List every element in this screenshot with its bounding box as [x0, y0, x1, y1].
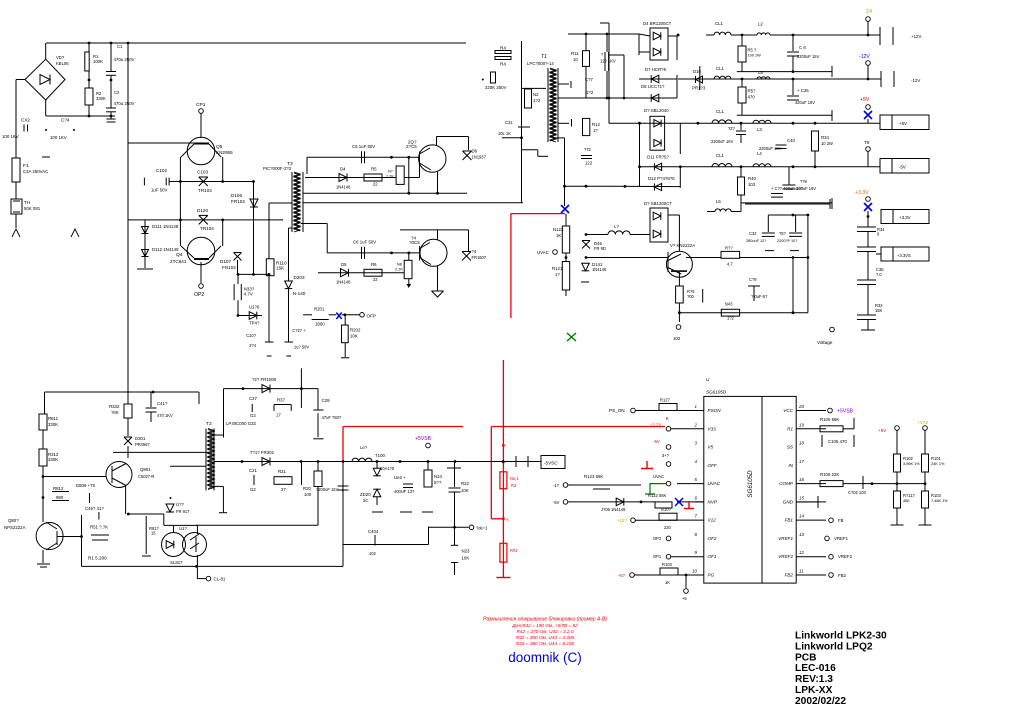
svg-text:10: 10	[573, 57, 578, 62]
svg-text:C404: C404	[368, 529, 379, 534]
svg-text:C 6: C 6	[799, 45, 806, 50]
svg-text:Voltage: Voltage	[817, 340, 833, 345]
svg-text:+5VSB: +5VSB	[837, 409, 854, 415]
svg-text:2TC641: 2TC641	[170, 259, 187, 264]
svg-text:N2: N2	[533, 92, 539, 97]
svg-text:?200uF 16V: ?200uF 16V	[316, 487, 339, 492]
svg-text:R121: R121	[552, 266, 563, 271]
svg-text:122: 122	[585, 161, 593, 166]
svg-text:OFP: OFP	[367, 314, 376, 319]
svg-text:COMP: COMP	[779, 481, 794, 486]
svg-text:FN104: FN104	[222, 265, 236, 270]
svg-text:C2: C2	[114, 90, 120, 95]
svg-text:+5V: +5V	[878, 428, 887, 433]
svg-text:C5027-R: C5027-R	[138, 474, 154, 479]
svg-text:470u 250V: 470u 250V	[114, 101, 135, 106]
svg-text:VREF1: VREF1	[778, 536, 793, 541]
svg-text:0: 0	[877, 232, 880, 237]
svg-text:V? KN2222A: V? KN2222A	[670, 243, 695, 248]
svg-text:R6: R6	[371, 262, 377, 267]
svg-text:2200uF 15V: 2200uF 15V	[797, 54, 820, 59]
svg-text:Ue2 +: Ue2 +	[394, 475, 406, 480]
svg-text:1N1937: 1N1937	[472, 155, 487, 160]
svg-text:J?06 1N4148: J?06 1N4148	[601, 507, 626, 512]
svg-text:15K: 15K	[276, 266, 285, 271]
svg-text:+5?: +5?	[618, 573, 626, 578]
svg-text:TH: TH	[24, 200, 30, 205]
svg-text:??9: ??9	[800, 179, 808, 184]
svg-text:L3: L3	[757, 127, 762, 132]
svg-text:R?117: R?117	[903, 493, 915, 498]
svg-text:R34: R34	[821, 135, 830, 140]
svg-text:22: 22	[373, 277, 378, 282]
svg-text:PSON: PSON	[708, 408, 722, 413]
svg-text:R106 56K: R106 56K	[820, 417, 839, 422]
svg-text:R51 ?.?K: R51 ?.?K	[90, 525, 108, 530]
svg-text:1?: 1?	[555, 272, 560, 277]
svg-text:Le?: Le?	[360, 445, 368, 450]
svg-text:C5 1uF 50V: C5 1uF 50V	[352, 144, 375, 149]
svg-text:13: 13	[799, 532, 804, 537]
svg-text:2?4: 2?4	[249, 343, 257, 348]
svg-text:14: 14	[799, 514, 804, 519]
svg-text:3+?: 3+?	[662, 453, 670, 458]
svg-text:+12V: +12V	[911, 34, 921, 39]
svg-text:OP2: OP2	[653, 536, 662, 541]
svg-text:-12V: -12V	[859, 54, 870, 60]
svg-text:CL1: CL1	[716, 153, 725, 158]
svg-text:FR 917: FR 917	[176, 509, 190, 514]
svg-text:N8: N8	[397, 263, 402, 267]
svg-text:102: 102	[673, 336, 681, 341]
svg-text:T9: T9	[864, 140, 870, 145]
svg-text:D107: D107	[220, 259, 231, 264]
svg-text:1?2: 1?2	[533, 98, 541, 103]
svg-text:50K 081: 50K 081	[24, 206, 41, 211]
svg-text:7?1? FR302: 7?1? FR302	[250, 450, 274, 455]
svg-text:D112 1N4148: D112 1N4148	[152, 247, 179, 252]
svg-text:2C: 2C	[363, 498, 369, 503]
svg-text:D? SB1200CT: D? SB1200CT	[644, 201, 672, 206]
svg-text:4: 4	[695, 459, 698, 464]
svg-text:T100: T100	[375, 453, 385, 458]
svg-text:100 1KV: 100 1KV	[50, 135, 67, 140]
svg-text:330K: 330K	[96, 96, 106, 101]
svg-text:2: 2	[694, 422, 698, 427]
svg-text:-5VSC: -5VSC	[544, 461, 558, 466]
svg-text:CL1: CL1	[715, 21, 724, 26]
svg-text:R11: R11	[571, 51, 579, 56]
svg-text:GND: GND	[783, 499, 794, 504]
svg-text:doomnik (C): doomnik (C)	[508, 650, 582, 665]
svg-text:PR4567: PR4567	[135, 442, 151, 447]
svg-text:D6: D6	[472, 149, 478, 154]
svg-text:10K: 10K	[462, 556, 470, 561]
svg-text:V5: V5	[708, 445, 714, 450]
svg-text:PR1?3: PR1?3	[692, 86, 706, 91]
svg-text:CL-81: CL-81	[214, 577, 226, 582]
svg-text:330K: 330K	[48, 422, 58, 427]
svg-text:N?: N?	[388, 170, 393, 174]
svg-text:-5V: -5V	[899, 165, 906, 170]
svg-text:3.96K 1%: 3.96K 1%	[903, 462, 920, 466]
svg-text:NVP: NVP	[708, 499, 718, 504]
svg-text:D301: D301	[135, 436, 146, 441]
svg-text:280ouF 12?: 280ouF 12?	[746, 239, 766, 243]
svg-text:T2: T2	[206, 421, 212, 427]
svg-text:R811: R811	[48, 416, 59, 421]
svg-text:A: A	[506, 517, 509, 522]
svg-text:N123: N123	[553, 227, 564, 232]
svg-text:2.2K: 2.2K	[395, 268, 403, 272]
svg-text:D11 FR?5?: D11 FR?5?	[647, 155, 669, 160]
svg-text:22: 22	[373, 182, 378, 187]
svg-text:VCC: VCC	[783, 408, 793, 413]
svg-text:LPC?000?-14: LPC?000?-14	[527, 61, 554, 66]
svg-text:1N4148: 1N4148	[592, 267, 607, 272]
svg-text:VREF2: VREF2	[838, 554, 853, 559]
svg-text:5: 5	[695, 477, 698, 482]
svg-text:UVAC: UVAC	[537, 250, 549, 255]
svg-text:R21: R21	[278, 469, 287, 474]
svg-text:R5?: R5?	[748, 89, 757, 94]
svg-text:10: 10	[692, 569, 697, 574]
svg-text:47uF ?50?: 47uF ?50?	[322, 415, 342, 420]
svg-text:2?C5: 2?C5	[406, 144, 417, 149]
svg-text:Q4: Q4	[176, 252, 183, 258]
svg-text:C105 470: C105 470	[828, 439, 847, 444]
svg-text:?00: ?00	[687, 294, 695, 299]
svg-text:Z4: Z4	[866, 9, 872, 15]
svg-text:420uF 16V: 420uF 16V	[795, 100, 815, 105]
svg-text:10L 1K: 10L 1K	[498, 131, 511, 136]
svg-text:C102: C102	[156, 168, 167, 173]
svg-text:5??: 5??	[434, 480, 442, 485]
svg-text:R12: R12	[592, 122, 601, 127]
svg-text:?0K: ?0K	[111, 410, 119, 415]
svg-text:TR104: TR104	[198, 188, 212, 193]
svg-text:FB: FB	[838, 518, 844, 523]
svg-text:R2: R2	[511, 483, 517, 488]
svg-text:+3.3VS: +3.3VS	[897, 253, 911, 258]
svg-text:C29: C29	[322, 398, 331, 403]
svg-text:R332: R332	[109, 404, 120, 409]
svg-text:+3.3V: +3.3V	[899, 215, 911, 220]
svg-text:+V?2: +V?2	[917, 420, 928, 425]
svg-text:D203: D203	[294, 275, 305, 280]
svg-text:LPK-XX: LPK-XX	[795, 685, 833, 696]
svg-text:UVAC: UVAC	[708, 481, 721, 486]
svg-text:D120: D120	[197, 208, 208, 213]
svg-text:L2: L2	[758, 22, 763, 27]
svg-text:-12V: -12V	[911, 78, 920, 83]
svg-text:D111 1N4148: D111 1N4148	[152, 224, 179, 229]
svg-text:SL817: SL817	[170, 560, 183, 565]
svg-text:?2?: ?2?	[728, 126, 736, 131]
svg-text:980: 980	[56, 495, 64, 500]
svg-text:R1 5.200: R1 5.200	[88, 556, 107, 561]
svg-text:OP2: OP2	[194, 292, 204, 298]
svg-text:19: 19	[799, 422, 804, 427]
svg-text:R42 = 300 Ом, U43 = 3.300: R42 = 300 Ом, U43 = 3.300	[516, 635, 575, 640]
svg-text:+5V: +5V	[899, 121, 907, 126]
svg-text:L6: L6	[716, 199, 721, 204]
svg-text:+5V: +5V	[860, 97, 870, 103]
svg-text:+12?: +12?	[617, 518, 627, 523]
svg-text:15: 15	[799, 495, 804, 500]
svg-text:LEC-016: LEC-016	[795, 663, 836, 674]
svg-text:PG: PG	[708, 573, 715, 578]
svg-text:4.7V: 4.7V	[244, 292, 253, 297]
svg-text:K: K	[666, 416, 669, 421]
svg-text:R812: R812	[53, 486, 64, 491]
svg-text:D8 UCC71?: D8 UCC71?	[641, 84, 665, 89]
svg-text:1N4148: 1N4148	[336, 185, 351, 190]
svg-text:V12: V12	[708, 518, 717, 523]
svg-text:470: 470	[748, 95, 756, 100]
svg-text:+3.3V: +3.3V	[650, 422, 662, 427]
svg-text:N43: N43	[725, 302, 733, 307]
svg-text:2002/02/22: 2002/02/22	[795, 696, 846, 707]
svg-text:C27: C27	[249, 396, 258, 401]
svg-text:D106: D106	[231, 193, 242, 198]
svg-text:1K: 1K	[556, 233, 561, 238]
svg-text:T1: T1	[541, 54, 547, 60]
svg-text:+ C26: + C26	[797, 88, 809, 93]
svg-text:L?: L?	[614, 224, 619, 229]
svg-text:L5: L5	[758, 70, 763, 75]
svg-text:12: 12	[799, 550, 804, 555]
svg-text:45K: 45K	[903, 499, 910, 503]
svg-text:SG6105D: SG6105D	[747, 470, 754, 498]
svg-text:R103: R103	[662, 562, 673, 567]
svg-text:-5V: -5V	[653, 439, 660, 444]
svg-text:?de=1: ?de=1	[476, 526, 488, 531]
svg-text:Linkworld LPK2-30: Linkworld LPK2-30	[795, 631, 887, 642]
svg-text:N23: N23	[462, 549, 471, 554]
svg-text:D4: D4	[340, 167, 346, 172]
svg-text:C?4: C?4	[61, 118, 70, 123]
svg-text:FR1607: FR1607	[472, 255, 487, 260]
svg-text:470 1KV: 470 1KV	[157, 413, 173, 418]
svg-text:R5 ?: R5 ?	[748, 48, 757, 53]
svg-text:U: U	[706, 377, 710, 382]
svg-text:470u 250V: 470u 250V	[114, 57, 135, 62]
svg-text:102: 102	[748, 182, 756, 187]
svg-text:C?02 103: C?02 103	[848, 490, 866, 495]
svg-text:9: 9	[695, 550, 698, 555]
svg-text:PIC?000F-2?2: PIC?000F-2?2	[263, 166, 292, 171]
svg-text:?0C5: ?0C5	[409, 240, 420, 245]
svg-text:TP4?: TP4?	[249, 321, 260, 326]
svg-text:V33: V33	[708, 426, 717, 431]
svg-text:C1: C1	[117, 44, 123, 49]
svg-text:D12 P?4?6?5: D12 P?4?6?5	[648, 176, 675, 181]
svg-text:OP1: OP1	[653, 554, 662, 559]
svg-text:17: 17	[799, 459, 804, 464]
svg-text:OF1: OF1	[708, 554, 717, 559]
svg-text:+3.3V: +3.3V	[855, 190, 869, 196]
svg-text:U??: U??	[176, 502, 185, 507]
svg-text:R122 06K: R122 06K	[648, 493, 666, 498]
svg-text:1N4148: 1N4148	[336, 280, 351, 285]
svg-text:R43 = 380 Ом, U44 = 9.236: R43 = 380 Ом, U44 = 9.236	[516, 641, 575, 646]
svg-text:100K: 100K	[93, 59, 103, 64]
svg-text:Ne,1: Ne,1	[510, 476, 519, 481]
svg-text:D7 HCR?6: D7 HCR?6	[645, 67, 667, 72]
svg-text:R201: R201	[314, 307, 325, 312]
svg-text:8: 8	[695, 532, 698, 537]
svg-text:?72: ?72	[584, 147, 592, 152]
svg-text:U1?: U1?	[179, 526, 188, 531]
svg-text:D806 +75: D806 +75	[76, 483, 96, 488]
svg-text:C45? 41?: C45? 41?	[85, 506, 104, 511]
svg-text:FB2: FB2	[785, 573, 794, 578]
svg-text:C41?: C41?	[157, 401, 168, 406]
svg-text:R1: R1	[787, 426, 793, 431]
svg-text:C103: C103	[197, 170, 208, 175]
svg-text:ZD20: ZD20	[360, 492, 371, 497]
svg-text:R#2: R#2	[510, 548, 518, 553]
svg-text:20: 20	[798, 404, 804, 409]
svg-text:11: 11	[799, 569, 804, 574]
svg-text:R40: R40	[748, 176, 757, 181]
svg-text:KBL06: KBL06	[56, 61, 69, 66]
svg-text:1u? 50V: 1u? 50V	[294, 345, 310, 350]
svg-text:400UF 13?: 400UF 13?	[394, 489, 415, 494]
svg-text:4,7: 4,7	[727, 262, 733, 267]
svg-text:R4: R4	[500, 62, 506, 67]
svg-text:R5: R5	[371, 167, 377, 172]
svg-text:R4: R4	[500, 46, 506, 51]
svg-text:12? 1KV: 12? 1KV	[600, 59, 616, 64]
svg-text:R102: R102	[903, 456, 914, 461]
svg-text:CX2: CX2	[21, 118, 30, 123]
svg-text:D4 BR1200CT: D4 BR1200CT	[643, 21, 672, 26]
svg-text:PS_ON: PS_ON	[609, 408, 625, 413]
svg-text:OFF: OFF	[708, 463, 718, 468]
svg-text:FB1: FB1	[785, 518, 794, 523]
svg-text:16: 16	[799, 477, 804, 482]
svg-text:CL1: CL1	[716, 66, 725, 71]
svg-text:C21: C21	[249, 468, 258, 473]
svg-text:C?27 +: C?27 +	[292, 328, 306, 333]
svg-text:1?: 1?	[593, 128, 598, 133]
svg-text:15: 15	[151, 531, 156, 536]
svg-text:L4: L4	[757, 151, 762, 156]
svg-text:R37: R37	[277, 398, 286, 403]
svg-text:REV:1.3: REV:1.3	[795, 674, 833, 685]
svg-text:C32: C32	[749, 231, 757, 236]
svg-text:?4: ?4	[472, 249, 477, 254]
svg-text:R123 56K: R123 56K	[584, 474, 603, 479]
svg-text:1?2: 1?2	[727, 316, 735, 321]
svg-text:N24: N24	[434, 474, 443, 479]
svg-text:10K: 10K	[350, 334, 358, 339]
svg-text:10K: 10K	[461, 488, 469, 493]
svg-text:UVAC: UVAC	[653, 474, 664, 479]
svg-text:R22: R22	[461, 481, 470, 486]
svg-text:U1?6: U1?6	[249, 305, 260, 310]
svg-text:R202: R202	[350, 328, 361, 333]
svg-text:D5: D5	[341, 262, 347, 267]
svg-text:+ C?? 400uF 16?: + C?? 400uF 16?	[771, 186, 803, 191]
svg-text:330K: 330K	[48, 457, 58, 462]
svg-text:LP40C000 G32: LP40C000 G32	[226, 421, 257, 426]
svg-text:TR104: TR104	[200, 226, 214, 231]
svg-text:2200?F 10?: 2200?F 10?	[777, 239, 797, 243]
svg-text:C3A 250VAC: C3A 250VAC	[23, 169, 48, 174]
svg-text:PCB: PCB	[795, 652, 817, 663]
svg-text:SS: SS	[787, 445, 794, 450]
svg-text:10A1?5: 10A1?5	[380, 466, 395, 471]
svg-text:?5?: ?5?	[779, 231, 787, 236]
svg-text:17: 17	[276, 413, 281, 418]
svg-text:-1?: -1?	[553, 483, 560, 488]
svg-text:VREF2: VREF2	[778, 554, 793, 559]
svg-text:7.46K 1%: 7.46K 1%	[931, 499, 948, 503]
svg-text:7: 7	[695, 514, 698, 519]
svg-text:C10?: C10?	[246, 333, 257, 338]
svg-text:1uF 50V: 1uF 50V	[151, 188, 168, 193]
svg-text:C31: C31	[505, 120, 513, 125]
svg-text:R105 22K: R105 22K	[820, 472, 839, 477]
svg-text:SG6105D: SG6105D	[706, 390, 727, 395]
svg-text:24K 1%: 24K 1%	[931, 462, 945, 466]
svg-text:10 2W: 10 2W	[821, 141, 833, 146]
svg-text:15K: 15K	[875, 308, 883, 313]
svg-text:FR 9D: FR 9D	[594, 246, 606, 251]
svg-text:+5: +5	[682, 596, 687, 601]
svg-text:1K: 1K	[665, 580, 670, 585]
svg-text:R42 = 270 Ом, U43 = 3.2.0: R42 = 270 Ом, U43 = 3.2.0	[517, 629, 574, 634]
svg-text:C?9: C?9	[749, 277, 757, 282]
svg-text:C40: C40	[787, 138, 796, 143]
svg-text:?2? FR1008: ?2? FR1008	[252, 377, 276, 382]
svg-text:R??: R??	[725, 246, 733, 251]
svg-text:R20: R20	[303, 486, 312, 491]
svg-text:1?2: 1?2	[586, 90, 594, 95]
svg-text:R103: R103	[931, 493, 942, 498]
svg-text:1: 1	[695, 404, 698, 409]
svg-text:Q80?: Q80?	[8, 518, 19, 523]
svg-text:Для R42 = 190 Ом, +5/7В = 52: Для R42 = 190 Ом, +5/7В = 52	[511, 623, 578, 628]
svg-text:FB2: FB2	[838, 573, 847, 578]
svg-text:225K 250V: 225K 250V	[485, 85, 507, 90]
svg-text:27: 27	[281, 487, 286, 492]
svg-text:D10: D10	[693, 69, 702, 74]
svg-text:2200uF 16V: 2200uF 16V	[711, 139, 734, 144]
svg-text:220: 220	[664, 525, 672, 530]
svg-text:1800: 1800	[315, 322, 325, 327]
svg-text:2200uF 16V: 2200uF 16V	[759, 146, 782, 151]
svg-text:Linkworld LPQ2: Linkworld LPQ2	[795, 641, 873, 652]
svg-text:C6 1uF 50V: C6 1uF 50V	[353, 240, 376, 245]
svg-text:102: 102	[369, 551, 377, 556]
svg-text:Q801: Q801	[140, 467, 151, 472]
svg-text:IN: IN	[788, 463, 793, 468]
svg-text:VREF1: VREF1	[834, 536, 849, 541]
svg-text:100: 100	[304, 492, 312, 497]
svg-text:KN2955: KN2955	[216, 150, 233, 155]
svg-text:D? SBL2040: D? SBL2040	[644, 108, 669, 113]
svg-text:100 1KV: 100 1KV	[2, 134, 19, 139]
svg-text:G2: G2	[250, 413, 256, 418]
svg-text:6: 6	[695, 495, 698, 500]
svg-text:R10?: R10?	[661, 507, 672, 512]
svg-text:+5VSB: +5VSB	[415, 436, 432, 442]
svg-text:R101: R101	[931, 456, 942, 461]
